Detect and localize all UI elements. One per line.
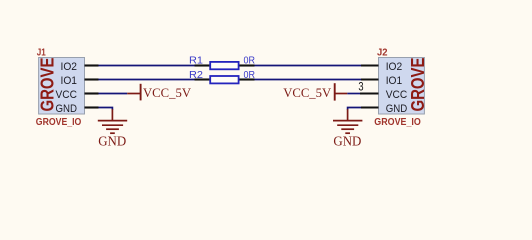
svg-text:J1: J1 — [37, 47, 46, 58]
connector J1 box — [39, 58, 85, 115]
svg-text:VCC_5V: VCC_5V — [283, 86, 332, 100]
power VCC_5V right stub — [335, 93, 348, 95]
svg-text:IO2: IO2 — [386, 61, 403, 73]
wire net GND right segment — [348, 108, 362, 110]
power VCC_5V left bar — [140, 84, 142, 101]
connector J2 box — [379, 58, 425, 115]
svg-text:VCC_5V: VCC_5V — [143, 86, 192, 100]
resistor R2 pin left — [195, 78, 210, 80]
resistor R2 pin right — [240, 78, 255, 80]
svg-text:R2: R2 — [189, 69, 203, 81]
J1 pin stub IO2 — [85, 64, 99, 66]
ground symbol left bar 3 — [106, 128, 119, 130]
J2 pin stub IO2 — [361, 64, 379, 66]
J2 pin stub GND — [361, 106, 379, 108]
svg-text:R1: R1 — [189, 55, 203, 67]
power VCC_5V right bar — [334, 83, 336, 100]
ground symbol right bar 4 — [345, 132, 350, 134]
svg-text:VCC: VCC — [56, 89, 78, 101]
svg-text:IO1: IO1 — [386, 75, 403, 87]
svg-text:VCC: VCC — [386, 89, 408, 101]
J1 pin stub GND — [85, 106, 99, 108]
J2 pin stub VCC — [360, 92, 379, 94]
wire net IO2 left segment — [99, 65, 195, 67]
svg-text:0R: 0R — [244, 69, 256, 81]
resistor R1 body — [210, 62, 238, 69]
svg-text:0R: 0R — [244, 55, 256, 67]
wire net IO1 right segment — [255, 79, 362, 81]
wire net IO1 left segment — [99, 79, 195, 81]
wire net GND left segment — [99, 108, 113, 110]
J2 pin stub IO1 — [361, 78, 379, 80]
resistor R1 pin right — [240, 64, 255, 66]
svg-text:GROVE_IO: GROVE_IO — [36, 117, 82, 128]
ground symbol left stub — [111, 109, 113, 120]
svg-text:GROVE_IO: GROVE_IO — [374, 117, 421, 128]
ground symbol left bar 2 — [102, 124, 123, 126]
svg-text:GND: GND — [386, 103, 408, 115]
svg-text:GND: GND — [98, 134, 126, 149]
ground symbol right bar 3 — [341, 128, 354, 130]
ground symbol left bar 1 — [98, 120, 127, 122]
svg-text:IO2: IO2 — [61, 61, 78, 73]
resistor R1 pin left — [195, 64, 210, 66]
ground symbol right bar 2 — [337, 124, 358, 126]
svg-text:GND: GND — [56, 103, 78, 115]
resistor R2 body — [210, 76, 238, 83]
J1 pin stub VCC — [85, 92, 99, 94]
ground symbol right stub — [347, 109, 349, 120]
svg-text:IO1: IO1 — [61, 75, 78, 87]
ground symbol left bar 4 — [110, 132, 115, 134]
wire net VCC right segment — [347, 93, 360, 95]
J1 pin stub IO1 — [85, 78, 99, 80]
ground symbol right bar 1 — [333, 120, 362, 122]
svg-text:GROVE: GROVE — [408, 58, 428, 112]
wire net IO2 right segment — [255, 65, 362, 67]
svg-text:GROVE: GROVE — [37, 58, 57, 112]
power VCC_5V left stub — [127, 93, 140, 95]
svg-text:3: 3 — [358, 80, 364, 94]
svg-text:GND: GND — [333, 134, 361, 149]
wire net VCC left segment — [99, 93, 128, 95]
svg-text:J2: J2 — [377, 47, 388, 58]
